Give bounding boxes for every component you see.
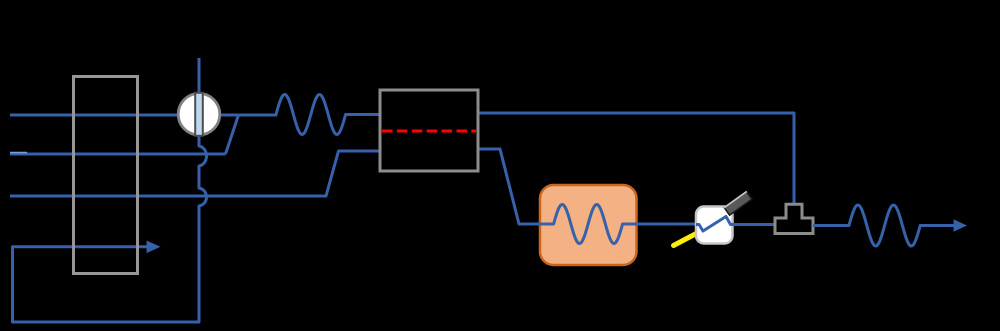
wire: analyzer lower output down to heated cell with coil inside	[478, 149, 696, 244]
grey probe handle on injection port	[724, 191, 752, 215]
wire: inlet line 1 (top) with coil through valve to analyzer box	[10, 95, 380, 135]
arrowhead of outlet arrow	[954, 219, 968, 232]
arrowhead of bottom return arrow	[147, 241, 161, 254]
wire: zigzag through injection port to tee	[696, 217, 775, 232]
wire: analyzer top output to tee (long line)	[478, 113, 794, 204]
wire: outlet line with coil and arrow	[813, 205, 954, 246]
wire: vertical line through valve with jumps, bottom loop and return	[13, 58, 207, 322]
wire: inlet line 3 (lower) rising into analyzer box	[10, 151, 380, 196]
white injection port box	[696, 207, 733, 244]
valve stem light-blue bar	[195, 93, 203, 136]
tee connector (black with grey outline)	[775, 204, 813, 233]
left grey furnace rectangle	[74, 77, 138, 274]
orange heated cell (rounded box)	[540, 185, 637, 265]
valve V1 circle	[178, 93, 220, 135]
wire: merge diagonal from line 2 up to line 1	[226, 115, 239, 154]
yellow optical beam into injection port	[674, 231, 702, 246]
red dashed laser line inside analyzer	[382, 130, 476, 133]
wire: inlet line 2 (middle)	[10, 153, 226, 154]
analyzer grey box	[380, 90, 478, 171]
